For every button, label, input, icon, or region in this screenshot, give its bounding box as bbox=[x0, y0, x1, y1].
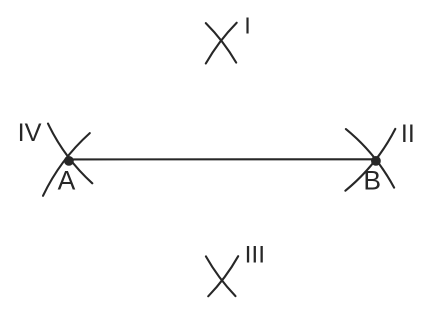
svg-text:B: B bbox=[363, 165, 381, 195]
arc tick at B (NE-SW) bbox=[345, 129, 395, 191]
top cross arc (center B) bbox=[206, 23, 237, 64]
node A dot bbox=[64, 156, 74, 166]
svg-text:A: A bbox=[58, 166, 76, 196]
svg-text:III: III bbox=[245, 241, 265, 268]
wire segment AB bbox=[69, 158, 376, 160]
top cross arc (center A) bbox=[206, 23, 236, 63]
arc tick at B (NW-SE) bbox=[346, 129, 394, 188]
arc tick at A (NE-SW) bbox=[43, 133, 90, 196]
svg-text:IV: IV bbox=[18, 119, 42, 147]
bottom cross arc (center B) bbox=[206, 256, 236, 296]
node B dot bbox=[371, 156, 381, 166]
svg-text:II: II bbox=[401, 120, 415, 148]
svg-text:I: I bbox=[244, 12, 251, 38]
arc tick at A (NW-SE) bbox=[48, 124, 92, 184]
bottom cross arc (center A) bbox=[208, 256, 238, 296]
